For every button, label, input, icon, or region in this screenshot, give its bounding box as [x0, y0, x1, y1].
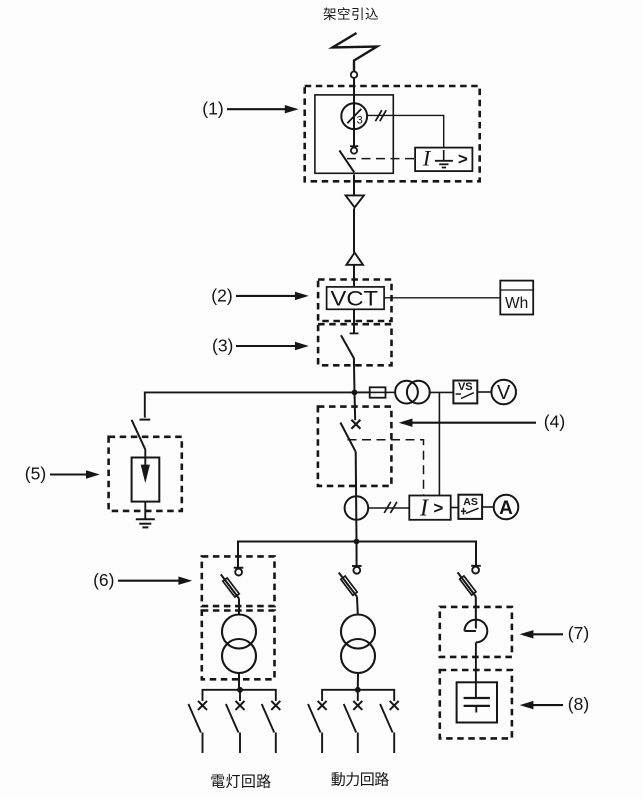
wire: bus left toward lightning arrester: [145, 392, 355, 417]
voltage transformer VT (two circles): [395, 381, 418, 404]
svg-text:(6): (6): [93, 570, 114, 590]
double-slash marks on ZCT secondary: [375, 110, 381, 121]
branch breaker B1b: [226, 701, 245, 753]
svg-text:(4): (4): [544, 412, 565, 432]
pointer arrow for (6): [118, 580, 181, 582]
ammeter A: [494, 495, 519, 520]
ground relay box GR (I earth >): [415, 148, 472, 172]
svg-text:V: V: [497, 382, 511, 404]
transformer T2 (power): [341, 615, 375, 649]
fuse cutout PC2 blade with fuse tube: [339, 573, 357, 597]
svg-text:A: A: [499, 498, 513, 519]
enclosure box (1) PAS with ground relay, dashed: [305, 86, 480, 181]
dashed trip linkage from CB to OCR: [348, 440, 424, 496]
CB blade: [340, 423, 355, 452]
pointer arrow for (1): [227, 108, 288, 110]
enclosure box (3) disconnecting switch, dashed: [318, 324, 391, 365]
wire: junction down into CB: [354, 392, 357, 420]
wire: bus right to PF fuse: [355, 391, 370, 393]
enclosure box (5) lightning arrester, dashed: [109, 437, 182, 511]
lightning arrester LA body: [132, 458, 160, 502]
ground symbol inside relay box: [443, 150, 445, 161]
series reactor SR: [465, 620, 488, 643]
VCT metering transformer box: [327, 287, 385, 309]
wire: ZCT secondary to ground relay: [367, 115, 444, 147]
wire: T1 secondary down: [238, 673, 240, 690]
wire: DS down to main junction: [353, 358, 356, 392]
LA fixed contact T-bar: [140, 419, 151, 421]
wire: fuse to VT: [386, 391, 396, 393]
branch breaker B1a: [188, 701, 207, 753]
node: open terminal circle at service point: [351, 72, 357, 78]
wire: PC3 down to reactor: [475, 597, 477, 629]
ZCT circle U1 (zero-phase CT, 3-phase): [341, 103, 367, 129]
svg-text:(8): (8): [568, 694, 589, 714]
pointer arrow for (5): [50, 473, 89, 475]
svg-text:(3): (3): [212, 335, 233, 355]
wire: CB down to CT: [355, 452, 358, 542]
svg-text:(7): (7): [568, 623, 589, 643]
pointer arrow for (4): [409, 422, 536, 424]
wire: T2 LV bus with end drops: [322, 690, 394, 701]
wire: cable between cable heads: [353, 208, 355, 252]
dashed trip linkage from switch to relay: [347, 158, 415, 160]
cable head CH2 (triangle up): [346, 253, 363, 265]
wire: T1 LV bus with end drops: [203, 690, 276, 701]
watt-hour meter Wh: [500, 281, 533, 315]
wire: service point down into enclosure (1): [353, 78, 355, 146]
branch breaker B2c: [380, 701, 399, 753]
svg-text:>: >: [458, 150, 468, 169]
current transformer CT circle: [345, 496, 369, 520]
power capacitor SC box: [457, 682, 497, 722]
wire: VS to voltmeter: [477, 391, 491, 393]
cutout PC1 fixed contact: [234, 567, 244, 569]
fuse F1 (VT primary fuse): [370, 387, 386, 397]
CB contact cross: [351, 420, 360, 429]
svg-text:架空引込: 架空引込: [323, 7, 379, 22]
wire: PC1 to transformer T1: [238, 599, 240, 616]
DS blade: [341, 335, 354, 358]
svg-text:動力回路: 動力回路: [331, 772, 390, 789]
pointer arrow for (7): [530, 633, 563, 635]
wire: VCT down to DS: [353, 309, 355, 333]
cutout PC2 fixed contact: [352, 565, 362, 567]
node: T2 LV junction: [355, 687, 361, 693]
enclosure box (8) power capacitor, dashed: [440, 670, 512, 738]
node: T1 LV junction: [237, 687, 243, 693]
pointer arrow for (8): [530, 704, 563, 706]
branch breaker B2b: [344, 701, 363, 753]
wire: OCR to AS: [451, 507, 459, 509]
switch S1 fixed contact (T-bar and circle): [350, 145, 358, 147]
branch breaker B1c: [262, 701, 281, 753]
ammeter changeover switch AS box: [458, 495, 482, 519]
enclosure box transformer T1, dashed: [202, 611, 275, 680]
svg-text:VS: VS: [458, 381, 473, 393]
wire: junction down to PC2: [356, 542, 358, 567]
node: distribution bus junction: [354, 539, 360, 545]
fuse cutout PC1 blade with fuse tube: [221, 574, 239, 598]
enclosure box (2) VCT, dashed: [318, 280, 391, 322]
wire: overhead lead-in zigzag: [333, 33, 378, 72]
wire: switch down out of enclosure (1): [353, 175, 355, 196]
wire: reactor down to capacitor: [475, 642, 477, 698]
wire: VT secondary to VS, with branch down: [430, 391, 454, 393]
svg-text:(1): (1): [202, 99, 223, 119]
svg-text:VCT: VCT: [331, 287, 379, 310]
svg-text:>: >: [433, 499, 443, 518]
fuse cutout PC3 blade with fuse tube: [458, 572, 476, 596]
enclosure box (4) circuit breaker, dashed: [318, 407, 392, 486]
LA disconnect blade: [132, 420, 146, 450]
wire: AS to ammeter: [482, 506, 494, 508]
svg-text:3: 3: [357, 114, 363, 126]
wire: CT secondary to OCR: [368, 507, 409, 509]
switch S1 blade (PAS): [339, 150, 354, 172]
wire: distribution bus with end drops: [238, 542, 476, 568]
overcurrent relay box OCR (I >): [409, 496, 450, 520]
ground symbol under arrester: [136, 518, 155, 520]
wire: T2 secondary down: [357, 673, 359, 690]
branch breaker B2a: [308, 701, 327, 753]
svg-text:(2): (2): [211, 285, 232, 305]
transformer T1 (lighting): [222, 615, 256, 649]
enclosure box (7) series reactor, dashed: [440, 607, 512, 657]
svg-text:(5): (5): [25, 464, 46, 484]
wire: VCT to watt-hour meter: [384, 297, 500, 299]
wire: arrester to ground: [144, 502, 146, 520]
inner solid box of PAS: [315, 95, 393, 173]
svg-text:I: I: [419, 496, 429, 522]
pointer arrow for (3): [236, 345, 298, 347]
cutout PC3 fixed contact: [471, 565, 481, 567]
cable head CH1 (triangle down): [346, 195, 364, 207]
wire: cable head to VCT: [353, 265, 355, 287]
pointer arrow for (2): [236, 295, 298, 297]
svg-text:電灯回路: 電灯回路: [210, 774, 271, 791]
svg-text:Wh: Wh: [505, 295, 528, 312]
voltmeter V: [491, 380, 516, 405]
double-slash marks on CT secondary: [384, 502, 391, 513]
wire: PC2 to transformer T2: [356, 597, 359, 615]
voltmeter switch VS box: [453, 381, 477, 404]
enclosure box (6) primary cutout, dashed: [202, 556, 275, 606]
node: main bus junction: [352, 390, 358, 396]
svg-text:AS: AS: [463, 496, 478, 508]
DS fixed contact T-bar: [350, 332, 359, 334]
